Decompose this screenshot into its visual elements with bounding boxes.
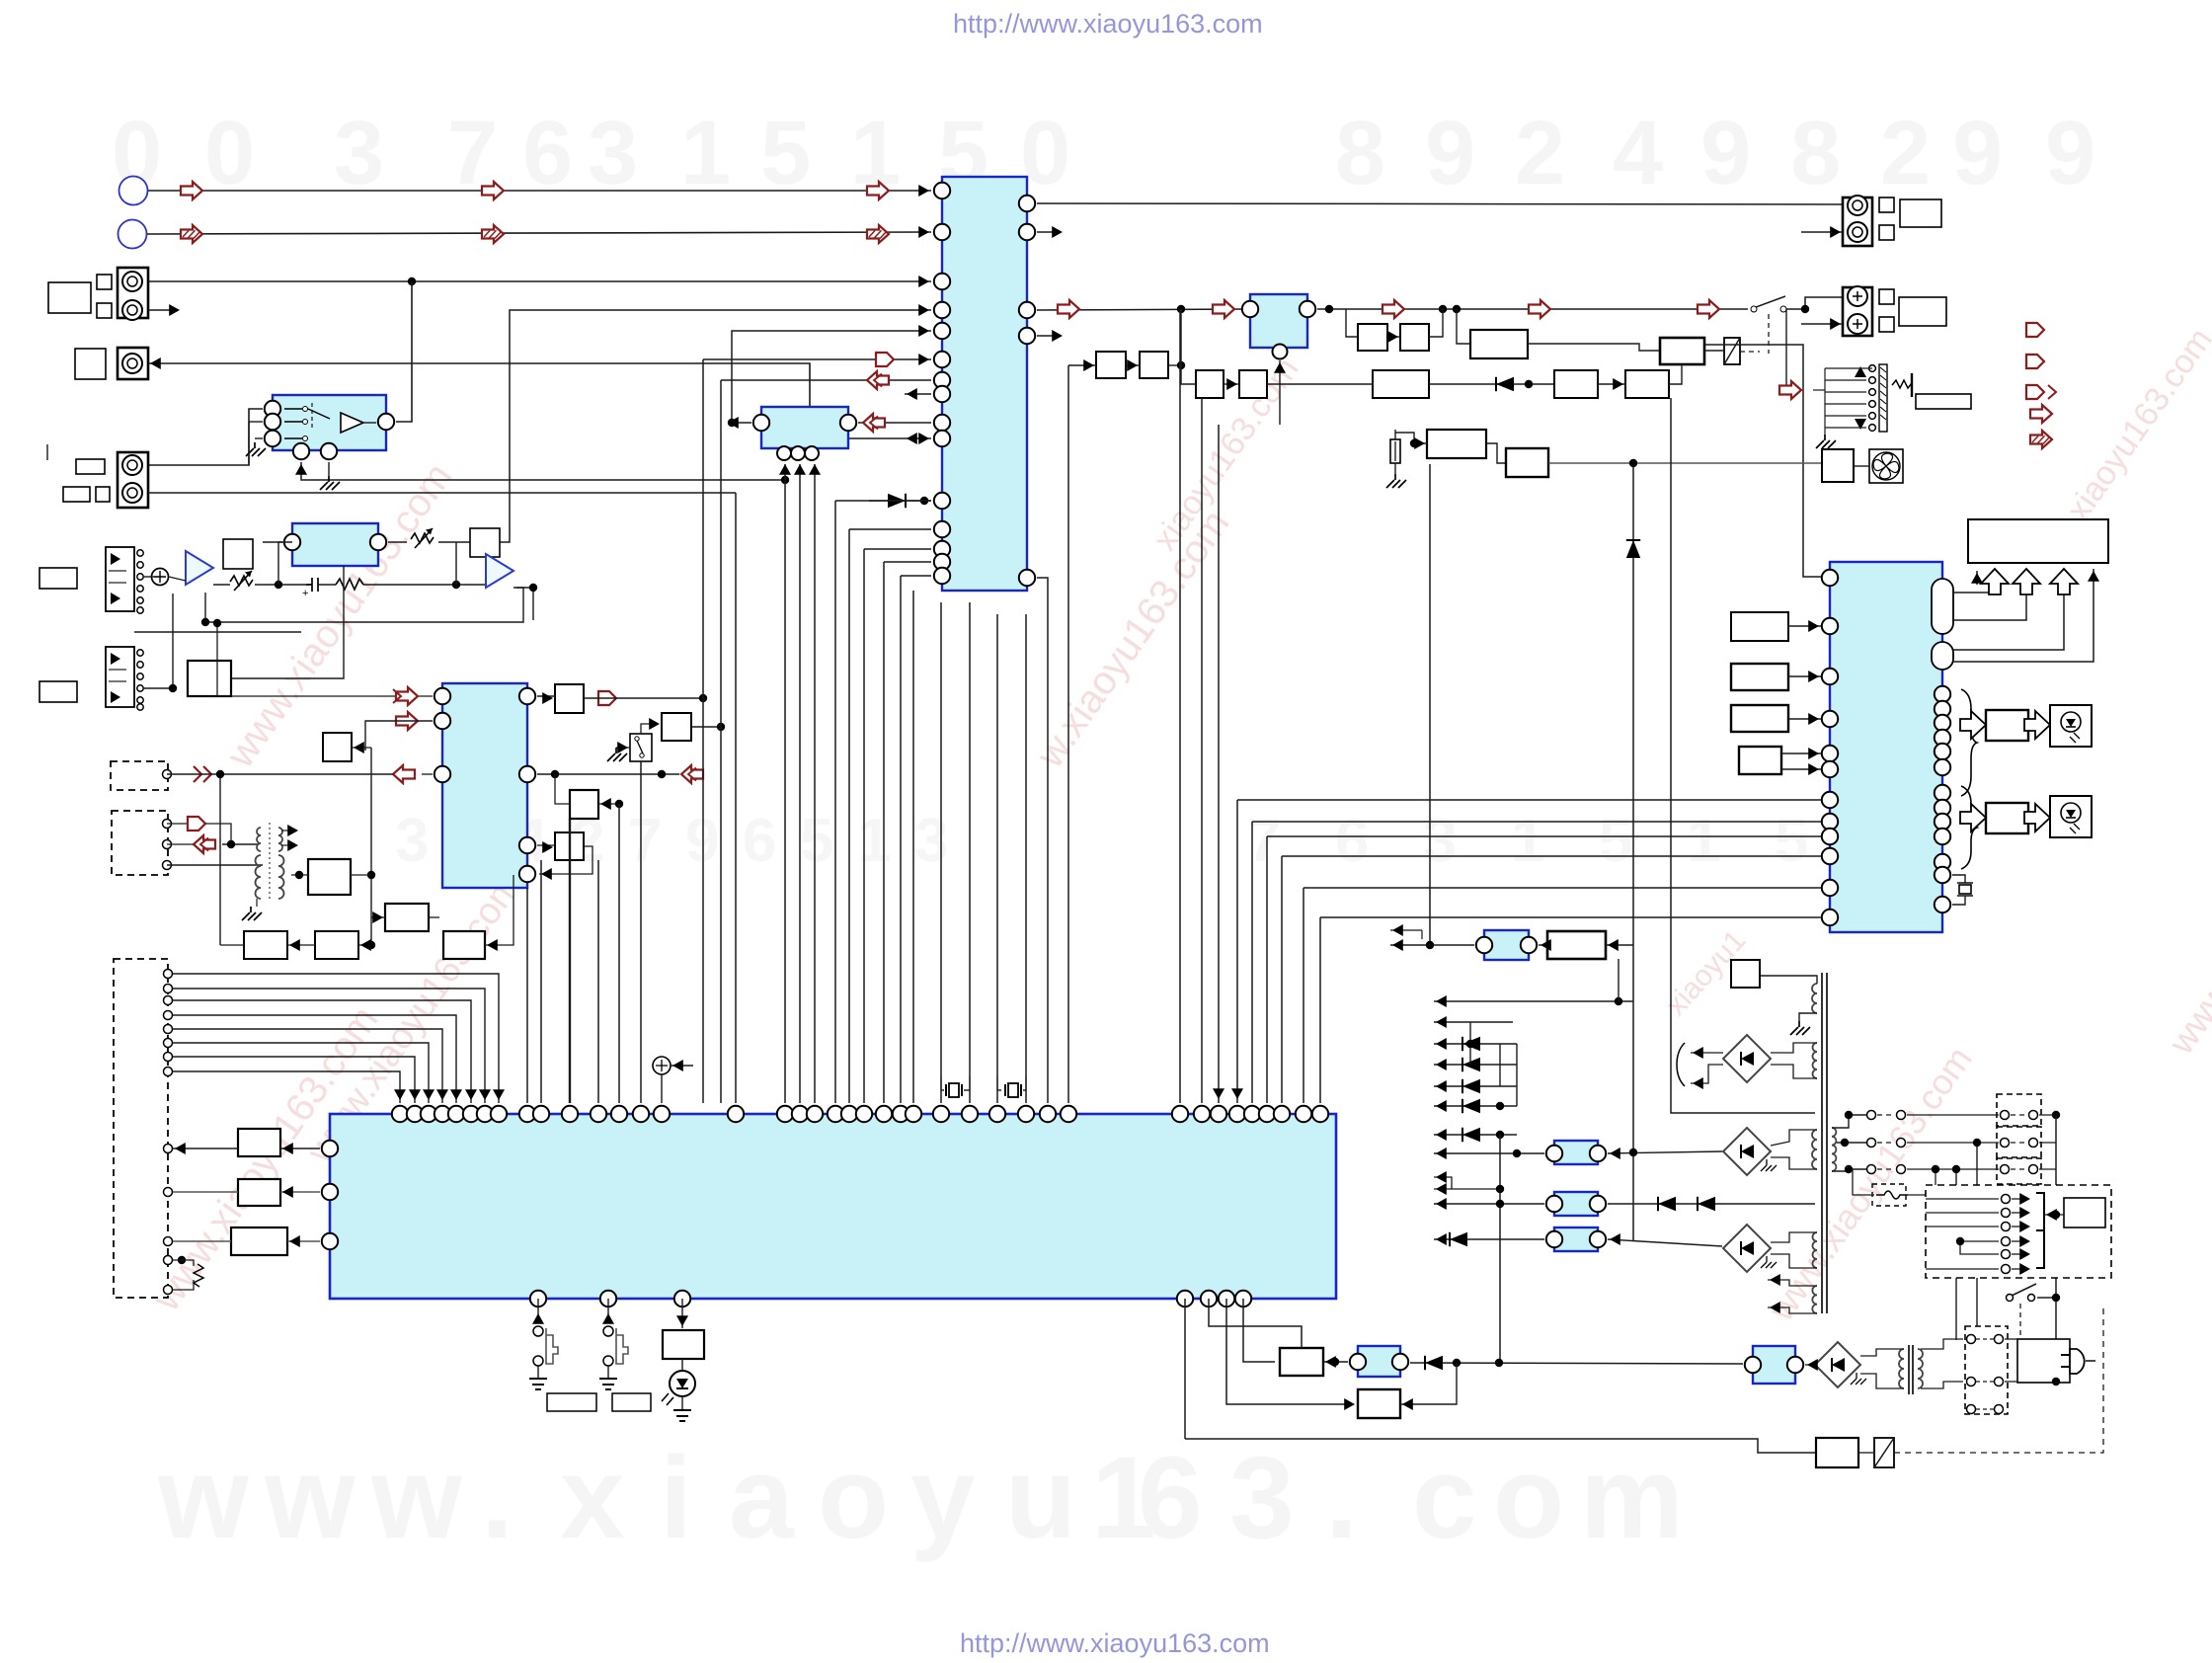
- wire SW1 b1 down: [301, 462, 785, 480]
- svg-text:3: 3: [334, 103, 384, 203]
- pin IC1 L7: [934, 372, 950, 388]
- pin IC4 T29: [1018, 1106, 1034, 1122]
- box B9: [1554, 370, 1598, 398]
- dashed connector DC mech: [114, 959, 168, 1298]
- wire long return y1014: [1434, 1000, 1633, 1002]
- square CNL tag2: [1879, 225, 1894, 240]
- varres VR1: [230, 576, 253, 586]
- pill IC2 R1: [1932, 579, 1953, 634]
- arrow out3: [2026, 385, 2044, 399]
- connector J3 TAPE: [118, 452, 148, 508]
- wire bridge4 to PSB: [1805, 1364, 1815, 1366]
- square CNSP tag1: [1879, 289, 1894, 304]
- pin IC1 L12: [934, 521, 950, 537]
- pin IC4 T5: [448, 1106, 464, 1122]
- wire B6 up: [1429, 309, 1443, 337]
- node n1196: [1177, 305, 1185, 313]
- arrow pin399 stub: [905, 393, 931, 395]
- wire ML3: [173, 1240, 231, 1242]
- arrow signal L3: [867, 182, 889, 199]
- selector row 3: [2002, 1223, 2011, 1231]
- pin IC3 L2: [434, 713, 450, 729]
- headphone jack assembly: [1785, 309, 1787, 390]
- arrow after box: [598, 691, 616, 705]
- arrow path5: [1698, 300, 1719, 318]
- pin IC2 R8: [1935, 800, 1950, 816]
- pin DC6: [164, 1039, 173, 1048]
- switch SW-SP: [1751, 306, 1757, 312]
- ic IC1 input selector / volume: [942, 177, 1027, 591]
- pin IC1 L2: [934, 224, 950, 240]
- wire bus BAL2: [799, 464, 801, 1103]
- svg-text:m: m: [1580, 1433, 1684, 1563]
- pin IC3 L3: [434, 766, 450, 782]
- wire vert 1448 down: [1429, 464, 1431, 945]
- wire PS1 row: [1434, 1152, 1544, 1154]
- triangle hp down: [1855, 419, 1866, 430]
- pin BAL L: [753, 415, 769, 431]
- svg-text:http://www.xiaoyu163.com: http://www.xiaoyu163.com: [953, 9, 1263, 39]
- wire fuse to B12: [1395, 433, 1427, 443]
- box MR3: [385, 904, 429, 931]
- box MR2: [315, 931, 358, 959]
- switch S-rec: [607, 1299, 609, 1323]
- pin IC4 T1: [392, 1106, 408, 1122]
- dashed connector DA: [111, 761, 168, 790]
- switch contacts inside SW1: [284, 409, 330, 438]
- wire into CNSP2: [1801, 323, 1843, 325]
- arrow path2: [1213, 300, 1234, 318]
- fat arrows led1: [1960, 711, 1986, 739]
- pin REG1 L: [1242, 301, 1258, 317]
- svg-text:5: 5: [1599, 807, 1632, 875]
- box PB EQ right: [470, 528, 500, 557]
- diode row 1: [1434, 1043, 1517, 1045]
- pin IC3 R2: [519, 766, 535, 782]
- box CNSP label: [1899, 297, 1946, 326]
- wire bus BAL3: [814, 464, 816, 1103]
- pin SW1 out: [378, 414, 394, 430]
- pin PSC R: [1392, 1354, 1408, 1370]
- wire busR2 1337: [1320, 916, 1821, 918]
- diode D8: [1425, 1356, 1443, 1370]
- pin IC4 T39: [1296, 1106, 1311, 1122]
- wire PSC to box: [1323, 1361, 1348, 1363]
- wire B5 feed: [1346, 309, 1358, 337]
- pin DC9: [164, 1145, 173, 1153]
- arrows bridge1: [1691, 1052, 1723, 1054]
- wire bus548: [540, 860, 542, 1103]
- square CNSP tag2: [1879, 317, 1894, 332]
- pin IC2 R2: [1935, 701, 1950, 717]
- box T1 top: [1731, 960, 1760, 988]
- dashed relay to switch: [1894, 1304, 2103, 1453]
- ground T: [256, 899, 258, 907]
- pin IC2 L12: [1822, 910, 1838, 925]
- wire S2 arrow: [671, 1065, 693, 1067]
- pin DB2: [163, 840, 172, 849]
- diode D6: [1429, 383, 1554, 385]
- svg-text:5: 5: [760, 103, 811, 203]
- wire J1 out arrow: [148, 309, 176, 311]
- wire busR2 1283: [1267, 835, 1821, 837]
- pin IC4 T34: [1211, 1106, 1226, 1122]
- pin DC10: [164, 1188, 173, 1197]
- wire vert 1692 down: [1671, 398, 1815, 1113]
- pin IC3 L1: [434, 688, 450, 704]
- pin IC4 T37: [1259, 1106, 1275, 1122]
- box TAPE label: [63, 487, 90, 502]
- svg-text:y: y: [910, 1433, 976, 1563]
- wire IC3 R2 row: [537, 773, 679, 775]
- ic BAL balance block: [761, 407, 848, 448]
- wires IC4 bottom right pins: [1184, 1299, 1186, 1439]
- wire DB1: [205, 824, 231, 844]
- crystal X2: [997, 1089, 1001, 1091]
- arrow IC3 in1 dbl: [217, 695, 433, 697]
- wire path after REG1: [1317, 308, 1748, 310]
- svg-text:9: 9: [1952, 103, 2003, 203]
- svg-text:3: 3: [914, 807, 948, 875]
- hp wires: [1825, 367, 1872, 369]
- pin IC4 B2: [600, 1291, 616, 1307]
- selector row 2: [2002, 1209, 2011, 1218]
- pin DC7: [164, 1053, 173, 1062]
- square CNL tag1: [1879, 198, 1894, 212]
- pin IC4 T3: [421, 1106, 436, 1122]
- pin IC1 L8: [934, 386, 950, 402]
- svg-text:+: +: [302, 588, 308, 599]
- box ML1: [238, 1129, 280, 1156]
- pin IC1 R3: [1019, 302, 1035, 318]
- box B11 thick: [1660, 338, 1704, 364]
- box Bm2: [570, 790, 598, 819]
- pin DC4: [164, 1011, 173, 1020]
- wire plug to housing: [2005, 1338, 2017, 1340]
- box B4: [1239, 370, 1267, 398]
- pin IC4 B5: [1201, 1291, 1217, 1307]
- pin IC1 L4: [934, 302, 950, 318]
- wire MR2-MR1: [287, 944, 315, 946]
- wire bottom long: [1185, 1439, 1816, 1453]
- diode row 1149: [1434, 1134, 1517, 1136]
- wire heads to sum: [144, 576, 160, 578]
- pot VR3: [164, 1256, 173, 1265]
- wire to PSA box right: [1606, 944, 1633, 946]
- wire B1-B2: [1126, 364, 1140, 366]
- AC plug: [2070, 1349, 2085, 1374]
- svg-text:1: 1: [857, 807, 891, 875]
- pin IC2 R3: [1935, 715, 1950, 731]
- wire aux: [1400, 1363, 1457, 1404]
- ground SWm: [616, 747, 630, 749]
- wire bus C2 to IC4: [849, 528, 931, 530]
- pin IC3 R3: [519, 837, 535, 853]
- wire Bm2 feed: [555, 774, 570, 804]
- wire busR2 1268: [1252, 821, 1821, 823]
- transformer T2: [1908, 1345, 1910, 1394]
- node TUNER-R input circle: [118, 220, 147, 249]
- boxes IC2 left: [1731, 612, 1788, 641]
- diode ladder verticals: [1469, 1022, 1471, 1065]
- wire bus 731: [720, 380, 722, 1103]
- ground hp: [1816, 435, 1836, 448]
- dashed power link: [2019, 1304, 2021, 1335]
- pin DB1: [163, 820, 172, 829]
- arrow signal L1: [181, 182, 202, 199]
- wire DA vertical feed: [365, 721, 433, 751]
- svg-text:9: 9: [1425, 103, 1475, 203]
- wire bias: [231, 566, 344, 678]
- wire bus BAL1: [784, 464, 786, 1103]
- arrow path3: [1382, 300, 1404, 318]
- pin PS1 R: [1590, 1146, 1606, 1161]
- pin IC4 T38: [1274, 1106, 1290, 1122]
- stub arrows 1204: [1434, 1188, 1500, 1190]
- wire IC3 out1 to left: [220, 773, 393, 775]
- arrow DB1 pent: [188, 817, 205, 831]
- brace cluster1: [1961, 689, 1977, 796]
- pin IC4 L2: [322, 1184, 338, 1200]
- wire DC8 to IC4: [173, 1071, 400, 1103]
- pin PS3 L: [1546, 1231, 1562, 1247]
- box fan drive: [1822, 449, 1854, 482]
- wire REG1 bottom feed: [1279, 360, 1281, 425]
- svg-text:9: 9: [685, 807, 719, 875]
- wire B5-B6: [1387, 336, 1400, 338]
- pin PSC L: [1350, 1354, 1366, 1370]
- ic EQ1 equalizer: [292, 523, 378, 566]
- wire DB2: [167, 843, 194, 845]
- wire head lower bias: [134, 631, 301, 633]
- box B7 wide: [1470, 330, 1528, 358]
- pin IC4 T36: [1244, 1106, 1260, 1122]
- pin IC4 T17: [777, 1106, 793, 1122]
- triangle hp up: [1855, 366, 1866, 377]
- pin DA1: [163, 770, 172, 779]
- pin SW1 in3: [265, 431, 280, 446]
- svg-text:2: 2: [1515, 103, 1565, 203]
- wire fuse loop: [1853, 1169, 1874, 1195]
- pin IC1 L14: [934, 554, 950, 570]
- diode row 3: [1434, 1085, 1517, 1087]
- square J3 tag B: [96, 487, 110, 502]
- wire trim to box: [438, 541, 470, 543]
- wire busR 1234: [1218, 425, 1220, 1103]
- pin IC4 T22: [856, 1106, 872, 1122]
- arrow signal R3 hatched: [867, 225, 889, 243]
- arrow pin364: [703, 358, 931, 360]
- pin IC4 L1: [322, 1141, 338, 1156]
- wire switch to connector: [1786, 297, 1843, 309]
- wire T2 left to bridge4: [1860, 1349, 1904, 1356]
- wire B1 feed: [1068, 364, 1096, 366]
- summing node S1: [152, 569, 169, 586]
- wire DA to IC3 out line: [167, 773, 220, 775]
- box bias osc: [188, 661, 231, 696]
- wire B7 out: [1528, 344, 1660, 351]
- ground SW1 left: [255, 437, 263, 439]
- wire IC3 R1: [537, 695, 555, 697]
- ground SW1 b2: [328, 462, 330, 476]
- pin IC1 R2: [1019, 224, 1035, 240]
- pin DB3: [163, 861, 172, 870]
- arrow out2: [2026, 355, 2044, 368]
- ic PSB standby supply: [1753, 1346, 1795, 1384]
- pin IC2 L2: [1822, 618, 1838, 634]
- wire IC3 R4: [539, 846, 592, 874]
- wire SWm up: [641, 724, 658, 734]
- wire busR 1217: [1201, 398, 1203, 1103]
- pin PS2 L: [1546, 1196, 1562, 1212]
- pin IC2 L5: [1822, 746, 1838, 761]
- svg-text:5: 5: [1775, 807, 1808, 875]
- pin IC4 T23: [876, 1106, 892, 1122]
- wire J2 to IC1 pin444: [148, 363, 931, 438]
- box B5: [1358, 324, 1387, 351]
- relay RY1: [1724, 338, 1740, 364]
- svg-text:6: 6: [743, 807, 776, 875]
- wire bus C1 to IC4: [835, 500, 931, 502]
- pin IC2 L6: [1822, 761, 1838, 777]
- wire BmT feed: [352, 747, 371, 749]
- pin EQ1 in: [284, 534, 300, 550]
- arrow stub topA: [1390, 929, 1422, 931]
- wire into CNL2: [1801, 231, 1843, 233]
- relay RY2: [1874, 1438, 1894, 1467]
- box IC3 top out: [555, 684, 584, 713]
- svg-text:3: 3: [1229, 1433, 1295, 1563]
- arrows T out: [281, 830, 296, 831]
- svg-text:w: w: [157, 1433, 250, 1563]
- wire PS2 row: [1434, 1203, 1544, 1205]
- box PSA out: [1547, 931, 1606, 959]
- wire fb top: [278, 542, 292, 585]
- pin SW1 b2: [321, 443, 337, 459]
- svg-text:o: o: [1493, 1433, 1564, 1563]
- box MR4: [443, 931, 485, 959]
- summing node S2: [653, 1057, 671, 1074]
- fuse F2 vertical: [1394, 430, 1396, 439]
- box ML2: [238, 1179, 280, 1206]
- wire thin arrow left: [1976, 571, 1978, 585]
- selector bracket: [2036, 1193, 2044, 1268]
- wire bus C5 to IC4: [901, 575, 931, 577]
- pin IC2 X2: [1935, 897, 1950, 912]
- pin DC1: [164, 970, 173, 979]
- arrow DA chevron: [194, 766, 211, 782]
- box REC label: [223, 539, 253, 569]
- svg-text:1: 1: [1511, 807, 1544, 875]
- arrow out4: [2030, 405, 2052, 423]
- diode row 4: [1434, 1105, 1517, 1107]
- wire bus 1010: [996, 614, 998, 1103]
- wire EQ out to trim: [388, 541, 407, 543]
- diode D5 on pin507 line: [869, 500, 931, 502]
- switch S-play: [537, 1299, 539, 1323]
- ic SW1 input selector: [273, 395, 386, 450]
- pin IC4 T28: [989, 1106, 1005, 1122]
- wire busR 1195: [1179, 309, 1181, 1103]
- box B10: [1625, 370, 1669, 398]
- wire DC1 to IC4: [173, 974, 499, 1103]
- pin IC2 R11: [1935, 854, 1950, 870]
- fat arrows led2: [1960, 804, 1986, 831]
- led POWER: [681, 1359, 683, 1371]
- diode D7 up: [1626, 540, 1640, 558]
- node TUNER-L input circle: [119, 177, 148, 205]
- pin IC4 T7: [477, 1106, 493, 1122]
- wire B13 gray out: [1548, 462, 1822, 464]
- pin IC4 T24: [893, 1106, 908, 1122]
- ground led: [681, 1396, 683, 1410]
- pin DC8: [164, 1068, 173, 1076]
- svg-text:7: 7: [628, 807, 662, 875]
- pin IC2 R9: [1935, 814, 1950, 830]
- square J1 tag B: [97, 303, 112, 318]
- pin IC4 T6: [463, 1106, 479, 1122]
- pin REG1 R: [1300, 301, 1315, 317]
- opamp U2a: [186, 551, 213, 585]
- pin IC4 T35: [1229, 1106, 1245, 1122]
- pin PSA R: [1521, 937, 1537, 953]
- box S2 label: [612, 1393, 651, 1411]
- arrow IC3 in2: [396, 712, 418, 730]
- wire DC2 to IC4: [173, 989, 485, 1103]
- pin IC2 R7: [1935, 785, 1950, 801]
- wire pill2 arrows: [1953, 585, 2064, 650]
- T1 winding g4: [1813, 1232, 1818, 1268]
- wire PSA wiring: [1390, 944, 1474, 946]
- pin IC1 R4: [1019, 328, 1035, 344]
- pin IC2 R6: [1935, 759, 1950, 775]
- pin IC1 R5: [1019, 570, 1035, 586]
- tick J3: [46, 444, 48, 460]
- pin IC1 L15: [934, 568, 950, 584]
- selector row 6: [2002, 1265, 2011, 1274]
- box B1: [1096, 352, 1126, 378]
- svg-text:3: 3: [395, 807, 429, 875]
- wire busR2 1298: [1282, 855, 1821, 857]
- wire fan: [1854, 465, 1869, 467]
- wire primary taps: [1832, 1115, 1866, 1128]
- wire SW1 out up to CD line: [396, 281, 412, 422]
- box CD text label: [48, 282, 91, 313]
- pin EQ1 out: [370, 534, 386, 550]
- stub arrows 1192: [1434, 1177, 1452, 1189]
- pin IC4 B3: [674, 1291, 690, 1307]
- wire T to box: [291, 874, 308, 876]
- wire 223 down: [219, 774, 221, 945]
- svg-text:6: 6: [1335, 807, 1369, 875]
- box B12: [1427, 430, 1486, 458]
- diode ladder rows: [1434, 1021, 1513, 1023]
- svg-text:1: 1: [1687, 807, 1720, 875]
- wire B3-B4: [1224, 383, 1239, 385]
- dashed switch link: [1768, 314, 1770, 354]
- arrow signal L2: [482, 182, 504, 199]
- dashed selector box: [1926, 1185, 2111, 1278]
- wire B12 down B13: [1486, 443, 1506, 463]
- pin IC4 T10: [533, 1106, 549, 1122]
- wire busR2 1253: [1237, 799, 1821, 801]
- svg-text:9: 9: [2045, 103, 2095, 203]
- wire J3 lower out: [148, 492, 736, 494]
- box FL power: [1968, 519, 2108, 563]
- pin IC2 R4: [1935, 730, 1950, 746]
- wire y335 from BAL junction: [732, 331, 931, 423]
- wire J1 to IC1 pin: [148, 280, 931, 282]
